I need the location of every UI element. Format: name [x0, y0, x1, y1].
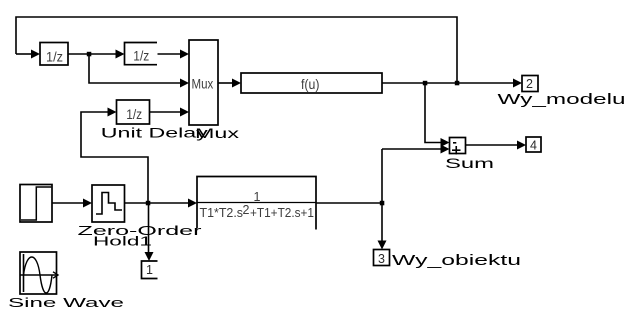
svg-text:Unit Delay: Unit Delay [101, 126, 208, 141]
svg-text:Hold1: Hold1 [93, 235, 152, 249]
svg-text:Sine Wave: Sine Wave [8, 296, 124, 310]
svg-text:3: 3 [378, 252, 385, 266]
svg-text:Mux: Mux [192, 76, 214, 92]
svg-text:Wy_obiektu: Wy_obiektu [392, 252, 521, 269]
svg-text:Sum: Sum [445, 155, 494, 171]
svg-text:2: 2 [243, 203, 250, 217]
svg-text:+T1+T2.s+1: +T1+T2.s+1 [250, 206, 314, 220]
svg-text:f(u): f(u) [301, 76, 320, 92]
svg-text:1: 1 [254, 190, 261, 204]
svg-text:1/z: 1/z [46, 49, 63, 65]
svg-text:4: 4 [530, 139, 537, 153]
svg-text:1/z: 1/z [133, 48, 149, 64]
svg-text:T1*T2.s: T1*T2.s [200, 206, 244, 220]
svg-text:1/z: 1/z [126, 106, 142, 122]
svg-text:Mux: Mux [195, 126, 239, 141]
svg-text:Wy_modelu: Wy_modelu [498, 91, 626, 108]
svg-text:2: 2 [526, 77, 533, 91]
svg-text:1: 1 [146, 263, 153, 277]
